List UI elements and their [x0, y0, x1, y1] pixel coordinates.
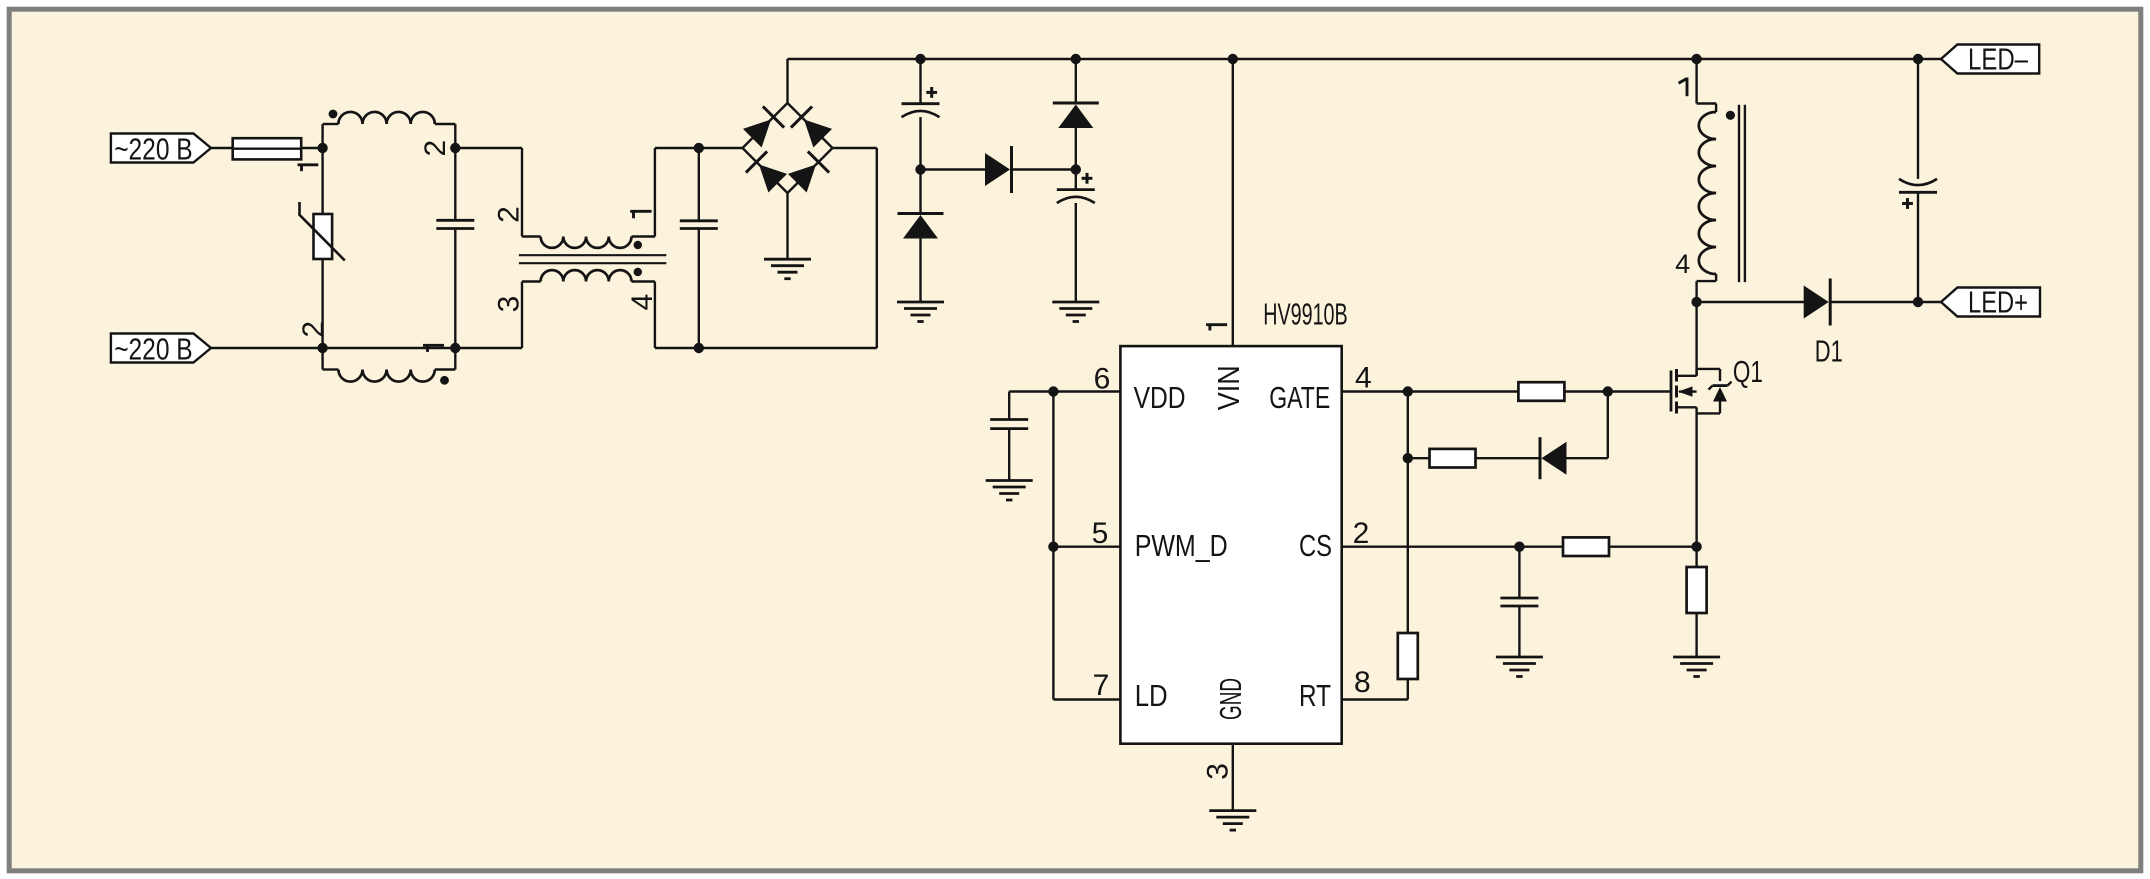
transformer T1 pin 2 lead [493, 148, 526, 237]
svg-text:RT: RT [1299, 678, 1331, 713]
wire [1233, 58, 1697, 60]
svg-text:4: 4 [1675, 249, 1690, 279]
ground (C5) [986, 481, 1033, 501]
wire [1075, 59, 1077, 103]
varistor RU1 [300, 202, 345, 261]
svg-text:LED–: LED– [1968, 42, 2029, 77]
wire [211, 347, 323, 349]
pin 5 label [1092, 517, 1109, 550]
transformer T1 pin 1 lead [630, 148, 655, 237]
polarity dot T1 bottom [634, 268, 642, 276]
wire [1609, 546, 1696, 548]
wire [1075, 203, 1077, 302]
plus C7 [1902, 198, 1913, 209]
wire [786, 193, 788, 259]
wire [788, 58, 921, 60]
wire [1053, 390, 1120, 392]
transformer T1 bottom winding [522, 270, 655, 281]
wire [1608, 390, 1670, 392]
diode D1 [1804, 279, 1831, 326]
ground (R5) [1673, 657, 1720, 677]
svg-text:2: 2 [297, 321, 330, 338]
pin 3 label [1201, 763, 1234, 780]
wire [1407, 392, 1409, 459]
wire [1076, 58, 1233, 60]
wire [919, 117, 921, 169]
wire [1052, 392, 1054, 547]
inductor L2 pin 4 lead [1675, 249, 1716, 302]
wire [1695, 547, 1697, 567]
ground (C4) [1052, 302, 1099, 322]
diode VD5 (gate) [1540, 437, 1567, 479]
wire [1232, 59, 1234, 346]
wire [1008, 392, 1010, 420]
wire [1917, 59, 1919, 179]
wire [1564, 390, 1608, 392]
wire [786, 59, 788, 103]
wire [1917, 192, 1919, 302]
svg-text:VDD: VDD [1134, 380, 1186, 415]
wire [1518, 606, 1520, 657]
wire [211, 147, 233, 149]
node (drain / L2 pin 4) [1691, 297, 1701, 307]
bridge rectifier VD1 [743, 103, 833, 193]
wire [1408, 457, 1430, 459]
op-amp U1 HV9910B body [1120, 297, 1347, 744]
capacitor C4 (electrolytic) [1057, 190, 1095, 203]
capacitor C5 (VDD bypass) [990, 420, 1028, 429]
svg-text:2: 2 [1353, 517, 1370, 550]
resistor R2 (gate discharge) [1430, 449, 1476, 468]
svg-text:4: 4 [1355, 362, 1372, 395]
transformer T1 top winding [522, 237, 655, 248]
svg-text:CS: CS [1299, 528, 1332, 563]
polarity dot T1 top [634, 241, 642, 249]
ground (bridge) [764, 259, 811, 279]
diode VD2 [898, 214, 944, 239]
pin 8 label [1354, 666, 1371, 699]
resistor R5 (sense) [1687, 567, 1707, 613]
svg-text:Q1: Q1 [1733, 354, 1763, 389]
inductor L2 pin 1 lead [1679, 78, 1717, 104]
node (LED+ junction) [1913, 297, 1923, 307]
wire [1567, 457, 1608, 459]
svg-text:LD: LD [1135, 678, 1168, 713]
wire [1342, 390, 1408, 392]
inductor L2 core [1739, 105, 1745, 282]
wire [1008, 429, 1010, 481]
wire [1075, 128, 1077, 170]
svg-text:2: 2 [493, 206, 526, 223]
wire [699, 347, 877, 349]
common-mode choke L1 bottom winding [323, 348, 456, 382]
label Q1 [1733, 354, 1763, 389]
wire [876, 148, 878, 348]
svg-text:VIN: VIN [1211, 365, 1246, 410]
wire [1407, 458, 1409, 633]
svg-text:~220 В: ~220 В [114, 132, 193, 167]
wire [1232, 744, 1234, 811]
wire [1052, 547, 1054, 700]
node (PWM_D junction) [1048, 542, 1058, 552]
svg-text:3: 3 [493, 296, 526, 313]
node (source junction) [1691, 542, 1701, 552]
wire [1342, 546, 1520, 548]
pin 1 label [1206, 325, 1227, 331]
wire [1918, 301, 1941, 303]
transformer T1 pin 3 lead [493, 282, 526, 349]
plus C3 [926, 87, 937, 98]
wire [1342, 698, 1408, 700]
node 1 (choke pin 1) [298, 143, 328, 171]
polarity dot L1 top [329, 110, 338, 119]
ground (C6) [1496, 657, 1543, 677]
wire [1053, 698, 1120, 700]
wire [919, 170, 921, 214]
wire [323, 347, 456, 349]
svg-text:2: 2 [419, 140, 452, 157]
node (C3 / VD2 / VD4) [915, 164, 925, 174]
pin 7 label [1093, 669, 1110, 702]
wire [1012, 168, 1076, 170]
wire [1053, 546, 1120, 548]
wire [454, 148, 456, 220]
pin 2 label [1353, 517, 1370, 550]
svg-text:5: 5 [1092, 517, 1109, 550]
ground (pin 3) [1209, 811, 1256, 831]
wire [919, 239, 921, 303]
inductor L2 winding [1699, 104, 1716, 282]
wire [1695, 413, 1697, 546]
capacitor C7 (output electrolytic) [1899, 179, 1937, 192]
wire [301, 147, 322, 149]
capacitor C3 (electrolytic) [902, 104, 940, 117]
capacitor C2 (bridge input) [680, 221, 718, 229]
node (VDD junction) [1048, 386, 1058, 396]
node 1' (choke pin 1 right) [423, 343, 460, 353]
wire [321, 259, 323, 348]
svg-text:3: 3 [1201, 763, 1234, 780]
resistor R3 (RT) [1398, 633, 1418, 679]
svg-text:HV9910B: HV9910B [1263, 297, 1348, 332]
svg-text:D1: D1 [1815, 333, 1843, 368]
node (VD3 top) [1071, 54, 1081, 64]
node 2 (choke pin 2) [297, 321, 330, 353]
svg-text:GATE: GATE [1269, 380, 1330, 415]
resistor R1 (gate) [1518, 382, 1564, 401]
svg-text:4: 4 [626, 294, 659, 311]
wire [455, 147, 522, 149]
svg-text:GND: GND [1213, 678, 1248, 720]
wire [1695, 59, 1697, 104]
svg-text:8: 8 [1354, 666, 1371, 699]
terminal LED+ [1941, 285, 2040, 320]
common-mode choke L1 top winding [323, 112, 456, 148]
node (VIN rail) [1228, 54, 1238, 64]
wire [698, 229, 700, 349]
node (gate junction 2) [1603, 386, 1613, 396]
node (gate junction 1) [1403, 386, 1413, 396]
node 2' (choke pin 2 right) [419, 140, 460, 157]
wire [1830, 301, 1918, 303]
svg-text:7: 7 [1093, 669, 1110, 702]
diode VD3 [1053, 103, 1099, 128]
wire [454, 229, 456, 349]
node (CS junction) [1514, 542, 1524, 552]
wire [1697, 58, 1918, 60]
label D1 [1815, 333, 1843, 368]
capacitor C1 (X-cap) [436, 220, 474, 228]
wire [1697, 301, 1805, 303]
transformer T1 pin 4 lead [626, 282, 659, 349]
wire [321, 148, 323, 214]
svg-text:PWM_D: PWM_D [1135, 528, 1228, 563]
wire [921, 58, 1076, 60]
wire [655, 147, 699, 149]
wire [1475, 457, 1540, 459]
node (L2 top) [1691, 54, 1701, 64]
terminal LED- [1941, 42, 2039, 77]
node (gate junction 3) [1403, 453, 1413, 463]
transistor Q1 (MOSFET) [1671, 369, 1732, 414]
node (VD3 / C4) [1071, 164, 1081, 174]
plus C4 [1082, 173, 1093, 184]
node (LED- rail) [1913, 54, 1923, 64]
wire [655, 347, 699, 349]
wire [1009, 390, 1053, 392]
fuse FU1 [233, 138, 302, 159]
wire [1607, 392, 1609, 459]
wire [1407, 679, 1409, 700]
wire [1075, 170, 1077, 190]
pin 4 label [1355, 362, 1372, 395]
wire [833, 147, 877, 149]
pin 6 label [1094, 363, 1111, 396]
wire [1918, 58, 1941, 60]
wire [698, 148, 700, 221]
node (bridge cap bottom) [694, 343, 704, 353]
transformer T1 core [519, 255, 666, 263]
wire [1519, 546, 1562, 548]
node (bridge cap top) [694, 143, 704, 153]
node (C3 top) [915, 54, 925, 64]
polarity dot L2 [1726, 111, 1735, 120]
ground (VD2) [897, 302, 944, 322]
wire [921, 168, 986, 170]
wire [919, 59, 921, 104]
svg-text:LED+: LED+ [1968, 285, 2028, 320]
wire [1518, 547, 1520, 598]
wire [699, 147, 743, 149]
wire [455, 347, 522, 349]
wire [1695, 613, 1697, 657]
terminal ~220 B lower [111, 332, 211, 367]
resistor R4 (CS filter) [1563, 537, 1609, 556]
terminal ~220 B upper [111, 132, 211, 167]
capacitor C6 (CS filter) [1500, 598, 1538, 606]
wire [1695, 302, 1697, 376]
svg-text:~220 В: ~220 В [114, 332, 193, 367]
polarity dot L1 bottom [440, 376, 449, 385]
diode VD4 [985, 146, 1012, 193]
wire [1408, 390, 1519, 392]
